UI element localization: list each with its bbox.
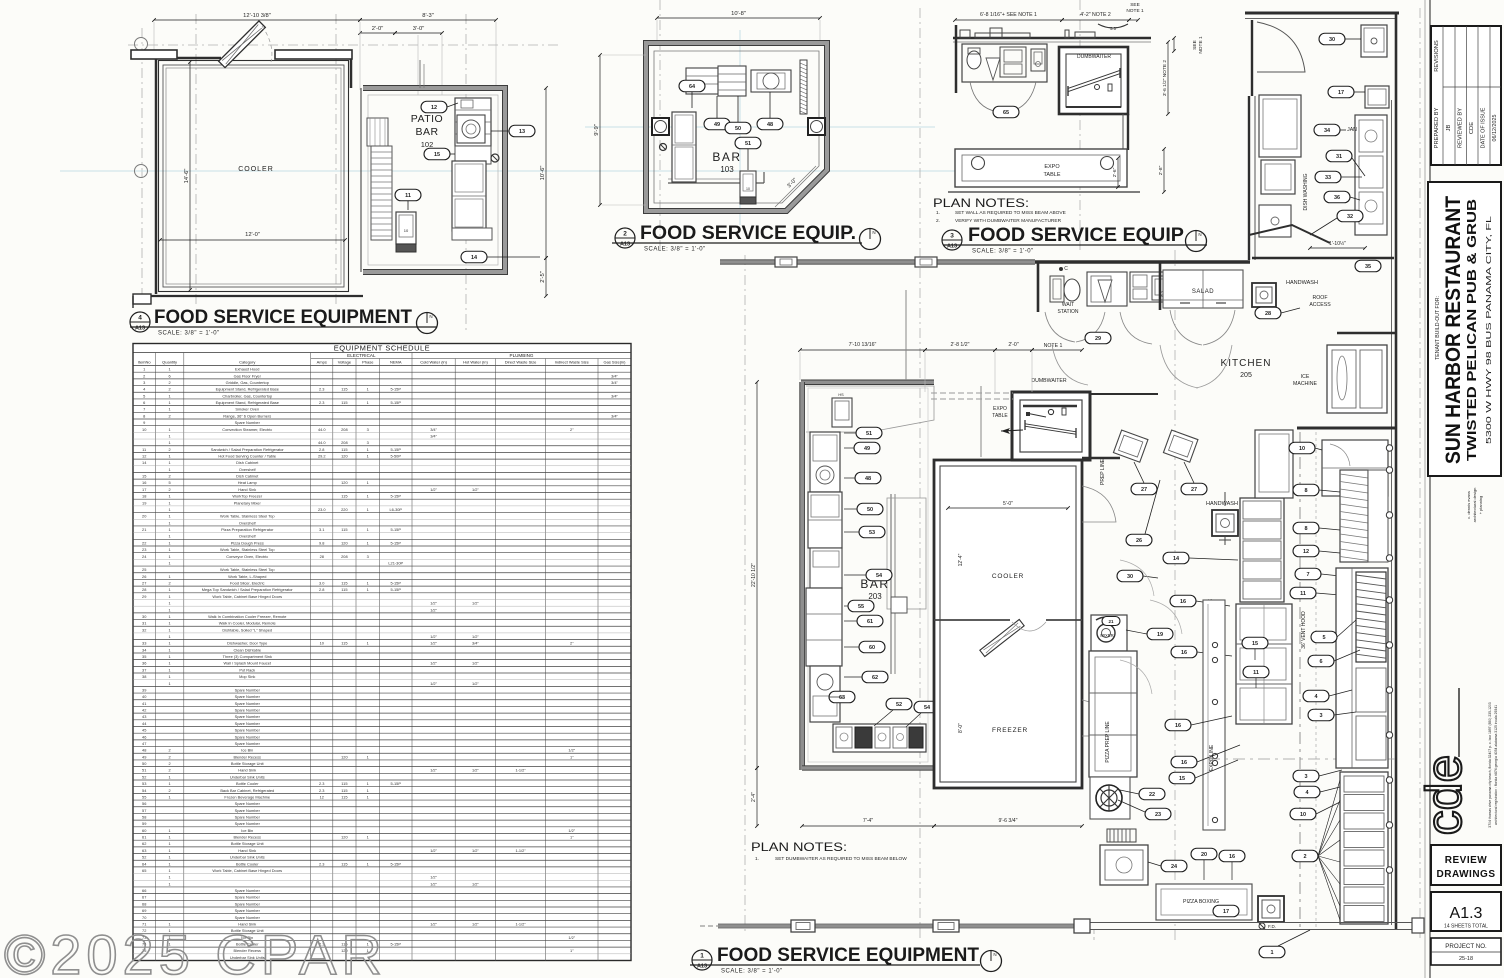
svg-text:2'-0": 2'-0" <box>372 26 384 32</box>
bubble 64 <box>679 80 705 92</box>
svg-text:1/2": 1/2" <box>430 634 437 639</box>
svg-text:4'-2" NOTE 2: 4'-2" NOTE 2 <box>1080 12 1111 18</box>
plan 2 room outer gray wall with chamfer <box>646 43 827 211</box>
svg-text:16: 16 <box>1181 650 1187 656</box>
svg-text:1: 1 <box>367 480 369 485</box>
svg-text:1: 1 <box>367 507 369 512</box>
svg-text:5-15P: 5-15P <box>391 587 402 592</box>
grid line kitchen v1 <box>744 255 746 935</box>
svg-text:29: 29 <box>142 594 146 599</box>
plan 3 title <box>942 225 1207 255</box>
svg-text:5-15P: 5-15P <box>391 540 402 545</box>
svg-text:Spare Number: Spare Number <box>235 687 261 692</box>
svg-text:3: 3 <box>143 380 145 385</box>
svg-text:1/2": 1/2" <box>430 607 437 612</box>
svg-text:3/4": 3/4" <box>611 393 618 398</box>
svg-text:17: 17 <box>1223 909 1229 915</box>
svg-text:WorkTop Freezer: WorkTop Freezer <box>232 494 262 499</box>
bubble 11 <box>395 189 421 201</box>
svg-text:1: 1 <box>367 494 369 499</box>
svg-text:VERIFY WITH DUMBWAITER MANUFAC: VERIFY WITH DUMBWAITER MANUFACTURER <box>955 218 1062 224</box>
svg-text:Dishwasher, Door Type: Dishwasher, Door Type <box>227 641 267 646</box>
svg-text:Hot Water (in): Hot Water (in) <box>463 359 488 364</box>
plan 3 dims 2ft-6 2ft-8 <box>1117 158 1119 187</box>
svg-text:SALAD: SALAD <box>1192 289 1214 295</box>
bubble 36 <box>1324 191 1350 203</box>
svg-text:63: 63 <box>142 848 146 853</box>
svg-text:2: 2 <box>169 748 171 753</box>
svg-text:EXPO: EXPO <box>1044 164 1060 170</box>
svg-text:1: 1 <box>169 527 171 532</box>
svg-text:5-15P: 5-15P <box>391 387 402 392</box>
svg-text:STATION: STATION <box>1058 309 1079 315</box>
svg-text:2": 2" <box>570 427 574 432</box>
svg-text:1: 1 <box>169 587 171 592</box>
plan 2 left dim 9ft-9in <box>599 55 601 205</box>
cooler vertical dim 14ft-6in <box>189 62 191 290</box>
svg-text:8: 8 <box>143 413 145 418</box>
svg-text:10'-8": 10'-8" <box>731 11 746 17</box>
patio bar back counter equipment <box>455 98 491 146</box>
svg-text:1/2": 1/2" <box>430 641 437 646</box>
svg-text:102: 102 <box>421 140 434 149</box>
svg-text:Mop Sink: Mop Sink <box>239 674 255 679</box>
svg-text:2'-8": 2'-8" <box>1158 165 1164 175</box>
bubble 62 bar <box>862 671 888 683</box>
svg-text:1.: 1. <box>755 856 759 862</box>
svg-text:Wall / Splash Mount Faucet: Wall / Splash Mount Faucet <box>224 661 272 666</box>
svg-text:REVISIONS: REVISIONS <box>1434 40 1440 72</box>
right hatched equip 1 <box>1340 470 1368 562</box>
svg-text:36: 36 <box>1334 195 1340 201</box>
kitchen top dims <box>800 349 925 351</box>
svg-text:38: 38 <box>142 674 146 679</box>
svg-text:1: 1 <box>169 848 171 853</box>
svg-text:55: 55 <box>142 794 146 799</box>
svg-text:L21-30P: L21-30P <box>388 560 403 565</box>
plan 3 bottom walls <box>948 191 1140 193</box>
svg-text:56: 56 <box>142 801 146 806</box>
plan 2 bottom equipment unit <box>740 171 756 197</box>
svg-text:30: 30 <box>1329 37 1335 43</box>
svg-text:6: 6 <box>143 400 145 405</box>
svg-text:CDE: CDE <box>1469 122 1475 134</box>
wait station equipment boxes <box>1087 272 1127 306</box>
svg-text:1-1/2": 1-1/2" <box>515 848 526 853</box>
svg-text:10'-6": 10'-6" <box>540 166 546 181</box>
svg-text:9'-9": 9'-9" <box>594 124 600 136</box>
svg-text:3704 thomas drive panama cit: 3704 thomas drive panama city beach, flo… <box>1488 702 1492 827</box>
wall junction box 2 <box>915 257 937 267</box>
bubble 34 jan <box>1314 124 1340 136</box>
svg-text:1: 1 <box>169 654 171 659</box>
svg-text:5'-0": 5'-0" <box>1003 501 1013 507</box>
bubble 51 <box>735 137 761 149</box>
cooler dim 5-0 <box>948 507 1068 509</box>
svg-text:2.8: 2.8 <box>319 587 324 592</box>
svg-text:architectural registration : f: architectural registration : florida #87… <box>1494 705 1498 825</box>
bubble 15 r <box>1242 637 1268 649</box>
svg-text:22: 22 <box>1149 792 1155 798</box>
svg-text:8: 8 <box>1304 526 1307 532</box>
svg-text:Direct Waste Size: Direct Waste Size <box>505 359 537 364</box>
svg-text:Underbar Sink Units: Underbar Sink Units <box>230 855 265 860</box>
svg-text:3: 3 <box>367 427 369 432</box>
svg-text:Pizza Dough Press: Pizza Dough Press <box>231 540 264 545</box>
svg-text:54: 54 <box>876 573 883 579</box>
bar left equipment column <box>810 432 840 492</box>
svg-text:Hot Food Serving Counter / Tab: Hot Food Serving Counter / Table <box>218 453 276 458</box>
cooler room outer wall <box>156 58 351 294</box>
svg-text:3: 3 <box>950 233 954 240</box>
svg-text:3'-6 1/2" NOTE 2: 3'-6 1/2" NOTE 2 <box>1162 60 1168 97</box>
title block main separator <box>1429 0 1431 978</box>
bubble 33 <box>1315 171 1341 183</box>
svg-text:29.2: 29.2 <box>318 453 326 458</box>
svg-text:Spare Number: Spare Number <box>235 888 261 893</box>
plan 3 arc 5.5 label <box>1098 24 1128 28</box>
wall connector box bottom 2 <box>933 920 959 932</box>
svg-text:16: 16 <box>1180 599 1186 605</box>
patio bar equip T1 unit bottom <box>396 212 416 244</box>
svg-text:31: 31 <box>142 621 146 626</box>
svg-text:14'-6": 14'-6" <box>184 169 190 184</box>
svg-text:2: 2 <box>169 413 171 418</box>
wall junction box 1 <box>775 257 797 267</box>
svg-text:HS: HS <box>838 393 844 397</box>
bubble 52 bar <box>886 698 912 710</box>
bubble 1 bottom <box>1259 946 1285 958</box>
svg-text:43: 43 <box>142 714 146 719</box>
svg-text:1: 1 <box>169 367 171 372</box>
svg-text:120: 120 <box>341 453 348 458</box>
table column lines <box>154 353 156 961</box>
svg-text:115: 115 <box>341 781 347 786</box>
kitchen mid wall stub <box>1297 427 1396 430</box>
svg-text:27: 27 <box>1191 487 1197 493</box>
svg-text:120: 120 <box>341 480 348 485</box>
svg-text:EXPO: EXPO <box>993 406 1007 412</box>
svg-text:SUN HARBOR RESTAURANT: SUN HARBOR RESTAURANT <box>1442 196 1465 464</box>
svg-text:Heat Lamp: Heat Lamp <box>238 480 257 485</box>
grid row centerline cyan <box>60 170 980 172</box>
fd sink bottom <box>1258 896 1284 922</box>
svg-text:60: 60 <box>869 645 875 651</box>
svg-text:2: 2 <box>169 447 171 452</box>
svg-text:2: 2 <box>169 754 171 759</box>
svg-text:1: 1 <box>367 754 369 759</box>
svg-text:115: 115 <box>341 794 347 799</box>
plan 3 dumbwaiter door bottom <box>1066 106 1121 108</box>
svg-text:1: 1 <box>169 855 171 860</box>
svg-text:10: 10 <box>746 187 750 191</box>
svg-text:3/4": 3/4" <box>430 433 437 438</box>
plan 3 dumbwaiter box <box>1059 47 1128 114</box>
plan 3 right wall of dw <box>1127 114 1129 150</box>
dish room prep sink mid <box>1365 86 1389 108</box>
svg-text:19: 19 <box>1157 632 1163 638</box>
svg-text:62: 62 <box>872 675 878 681</box>
svg-text:1: 1 <box>169 794 171 799</box>
svg-text:Spare Number: Spare Number <box>235 808 261 813</box>
svg-text:51: 51 <box>866 431 872 437</box>
svg-text:PATIO: PATIO <box>411 113 443 125</box>
svg-text:15: 15 <box>434 152 440 158</box>
plan 3 right dim 3ft-6 note 2 <box>1167 42 1169 114</box>
svg-text:Ice Bin: Ice Bin <box>241 828 253 833</box>
bubble 27 b <box>1181 483 1207 495</box>
svg-text:5-15P: 5-15P <box>391 942 402 947</box>
svg-text:SET WALL AS REQUIRED TO MISS B: SET WALL AS REQUIRED TO MISS BEAM ABOVE <box>955 210 1066 216</box>
svg-text:3: 3 <box>1319 713 1322 719</box>
svg-text:Convection Steamer, Electric: Convection Steamer, Electric <box>222 427 272 432</box>
svg-text:1/2": 1/2" <box>472 487 479 492</box>
svg-text:1: 1 <box>169 627 171 632</box>
svg-text:Overshelf: Overshelf <box>239 520 257 525</box>
svg-text:2": 2" <box>570 641 574 646</box>
svg-text:ELECTRICAL: ELECTRICAL <box>347 353 376 358</box>
bubble 60 bar <box>859 641 885 653</box>
bar sink run bottom <box>833 724 926 752</box>
grid line bar h-cyan plan2 <box>585 126 935 128</box>
svg-text:20: 20 <box>1201 852 1207 858</box>
bubble 63 bar <box>829 691 855 703</box>
svg-text:FREEZER: FREEZER <box>992 727 1028 734</box>
salad door arcs <box>1170 310 1202 345</box>
svg-text:1-1/2": 1-1/2" <box>515 768 526 773</box>
svg-text:1": 1" <box>570 835 574 840</box>
svg-text:59: 59 <box>142 821 146 826</box>
cooler door swing arc <box>262 26 272 62</box>
svg-text:18: 18 <box>142 494 146 499</box>
svg-text:2: 2 <box>169 487 171 492</box>
svg-text:51: 51 <box>142 768 146 773</box>
svg-text:42: 42 <box>142 708 146 713</box>
patio bar lower counter <box>455 146 491 164</box>
svg-text:5: 5 <box>1322 635 1325 641</box>
svg-text:1: 1 <box>169 661 171 666</box>
svg-text:1: 1 <box>169 534 171 539</box>
svg-text:EXPO LINE: EXPO LINE <box>1209 744 1215 771</box>
right hatched equip 2 <box>1356 572 1386 662</box>
svg-text:Bottle Storage Unit: Bottle Storage Unit <box>231 841 265 846</box>
svg-text:11: 11 <box>1300 591 1306 597</box>
svg-text:ICE: ICE <box>1301 374 1310 380</box>
kitchen left dim 22-10 <box>756 382 758 768</box>
dumbwaiter loading arrow <box>1001 430 1023 431</box>
svg-text:62: 62 <box>142 841 146 846</box>
svg-text:Pot Rack: Pot Rack <box>239 667 255 672</box>
svg-text:1: 1 <box>169 774 171 779</box>
svg-text:5: 5 <box>143 393 145 398</box>
svg-text:1: 1 <box>169 781 171 786</box>
svg-text:JB: JB <box>1446 124 1452 131</box>
svg-text:63: 63 <box>839 695 845 701</box>
svg-text:DATE OF ISSUE: DATE OF ISSUE <box>1481 107 1487 148</box>
svg-text:1: 1 <box>367 781 369 786</box>
right equip cells <box>1356 668 1386 712</box>
bubble 14 <box>461 251 487 263</box>
review drawings box <box>1431 845 1501 885</box>
svg-text:1: 1 <box>169 601 171 606</box>
svg-text:3/4": 3/4" <box>611 373 618 378</box>
svg-text:1: 1 <box>1270 950 1273 956</box>
bubble 16 d <box>1171 756 1197 768</box>
svg-text:PLAN NOTES:: PLAN NOTES: <box>933 196 1029 210</box>
svg-text:Spare Number: Spare Number <box>235 714 261 719</box>
svg-text:14: 14 <box>471 255 478 261</box>
patio bar hatched unit bottom <box>396 244 416 252</box>
svg-text:1: 1 <box>367 641 369 646</box>
svg-text:2'-4": 2'-4" <box>751 792 757 802</box>
svg-text:Mega Top Sandwich / Salad Prep: Mega Top Sandwich / Salad Preparation Re… <box>202 587 294 592</box>
bar top small sink <box>832 398 852 427</box>
svg-text:Dishtable, Soiled "L" Shaped: Dishtable, Soiled "L" Shaped <box>222 627 272 632</box>
plan 2 title <box>612 223 881 253</box>
expo pass counter <box>1203 600 1225 830</box>
svg-text:1/2": 1/2" <box>568 748 575 753</box>
shelf stack <box>1240 498 1284 602</box>
cooler left wall jamb top <box>131 50 177 59</box>
wait station walls <box>1035 260 1250 263</box>
svg-text:Blender Recess: Blender Recess <box>234 754 262 759</box>
svg-text:Walk In Cooler, Modular, Remot: Walk In Cooler, Modular, Remote <box>219 621 276 626</box>
svg-text:Work Table, Cabinet Base Hinge: Work Table, Cabinet Base Hinged Doors <box>212 594 282 599</box>
svg-text:47: 47 <box>142 741 146 746</box>
bubble 53 bar <box>859 526 885 538</box>
svg-text:EQUIPMENT SCHEDULE: EQUIPMENT SCHEDULE <box>334 343 430 352</box>
svg-text:12'-4": 12'-4" <box>958 553 964 566</box>
fryer bank <box>1340 772 1388 924</box>
plan 2 left column symbol <box>652 118 669 135</box>
svg-text:1: 1 <box>367 400 369 405</box>
bubble 79 <box>1147 628 1173 640</box>
svg-text:19: 19 <box>142 500 146 505</box>
plan 2 small fd circle <box>660 144 667 151</box>
dish machine boxes left <box>1259 95 1301 157</box>
svg-text:9: 9 <box>143 420 145 425</box>
svg-text:1: 1 <box>169 835 171 840</box>
horizontal dashdot mid-right <box>1208 758 1398 760</box>
svg-text:Spare Number: Spare Number <box>235 701 261 706</box>
grid line kitchen v4 <box>1419 8 1421 940</box>
svg-text:1/2": 1/2" <box>472 921 479 926</box>
svg-text:Walk In Combination Cooler Fre: Walk In Combination Cooler Freezer, Remo… <box>208 614 286 619</box>
svg-text:69: 69 <box>142 908 146 913</box>
bubble 16 e <box>1219 850 1245 862</box>
bubble 20 <box>1191 848 1217 860</box>
svg-text:3/4": 3/4" <box>472 641 479 646</box>
bubble 15 c <box>1169 772 1195 784</box>
svg-text:17: 17 <box>1338 90 1344 96</box>
svg-text:PLUMBING: PLUMBING <box>510 353 534 358</box>
svg-text:1/2": 1/2" <box>430 848 437 853</box>
svg-text:N: N <box>872 230 875 235</box>
svg-text:22'-10 1/2": 22'-10 1/2" <box>751 563 757 587</box>
svg-text:25: 25 <box>142 567 146 572</box>
plan4 bottom left wall tick <box>132 296 134 308</box>
svg-text:11: 11 <box>1253 670 1259 676</box>
bubble 24 <box>1161 860 1187 872</box>
svg-text:1: 1 <box>169 828 171 833</box>
svg-text:8'-3": 8'-3" <box>422 13 434 19</box>
svg-text:Work Table, L-Shaped: Work Table, L-Shaped <box>228 574 266 579</box>
svg-text:45: 45 <box>142 728 146 733</box>
bar mid column equipment <box>806 588 842 666</box>
svg-text:SET DUMBWAITER AS REQUIRED TO: SET DUMBWAITER AS REQUIRED TO MISS BEAM … <box>775 856 907 862</box>
bottom long exterior wall <box>718 924 1080 928</box>
svg-text:3: 3 <box>367 440 369 445</box>
svg-text:Work Table, Stainless Steel To: Work Table, Stainless Steel Top <box>220 567 275 572</box>
svg-text:1: 1 <box>169 674 171 679</box>
svg-text:Spare Number: Spare Number <box>235 420 261 425</box>
svg-text:Spare Number: Spare Number <box>235 908 261 913</box>
svg-text:1: 1 <box>169 868 171 873</box>
bubbles right column a <box>1293 484 1319 496</box>
hatched unit below dough press <box>1107 829 1136 842</box>
svg-text:48: 48 <box>865 476 871 482</box>
plan 3 toilet funnel shape <box>986 58 1000 80</box>
svg-text:1: 1 <box>169 641 171 646</box>
bubble 31 <box>1326 150 1352 162</box>
svg-text:1/2": 1/2" <box>472 768 479 773</box>
bar right counter <box>890 494 892 674</box>
svg-text:27: 27 <box>1141 487 1147 493</box>
svg-text:35: 35 <box>142 654 146 659</box>
wall connector box bottom 1 <box>700 925 718 927</box>
svg-text:©2025 CPAR: ©2025 CPAR <box>4 923 387 978</box>
salad cabinets <box>1163 270 1243 308</box>
svg-text:50: 50 <box>735 126 741 132</box>
svg-text:48: 48 <box>767 122 773 128</box>
svg-text:Spare Number: Spare Number <box>235 708 261 713</box>
bubble 26 <box>1126 534 1152 546</box>
svg-text:53: 53 <box>869 530 875 536</box>
svg-text:26: 26 <box>1136 538 1142 544</box>
svg-text:2: 2 <box>169 768 171 773</box>
svg-text:MACHINE: MACHINE <box>1293 381 1317 387</box>
svg-text:N: N <box>1198 232 1201 237</box>
plan 3 vanity boxes <box>1000 47 1026 77</box>
grid line plan3 v7 <box>1079 0 1081 250</box>
svg-text:1: 1 <box>169 500 171 505</box>
svg-text:2.3: 2.3 <box>319 861 324 866</box>
svg-text:NOTE 1: NOTE 1 <box>1044 343 1063 349</box>
svg-text:Clean Dishtable: Clean Dishtable <box>234 647 261 652</box>
svg-text:208: 208 <box>341 554 348 559</box>
svg-text:Quantity: Quantity <box>162 359 177 364</box>
svg-text:FOOD SERVICE EQUIP.: FOOD SERVICE EQUIP. <box>640 223 856 244</box>
svg-text:8: 8 <box>1304 488 1307 494</box>
bubble 28 <box>1255 307 1281 319</box>
svg-text:2.: 2. <box>936 218 940 224</box>
mixer <box>1091 615 1127 651</box>
bubble 54 bar b <box>914 701 940 713</box>
kitchen dish room left wall <box>1251 20 1253 96</box>
svg-text:5-15P: 5-15P <box>391 581 402 586</box>
kitchen wall stub right of dumbwaiter <box>1090 393 1158 395</box>
plan 4 dim extension lines <box>153 22 155 52</box>
plan 3 expo table <box>955 149 1127 187</box>
patio bar front counter L <box>452 161 486 231</box>
svg-text:61: 61 <box>867 619 873 625</box>
bubble 2 with fanout <box>1292 850 1318 862</box>
svg-text:Hand Sink: Hand Sink <box>238 487 256 492</box>
plan 3 left wall <box>955 25 958 93</box>
svg-text:103: 103 <box>720 165 734 174</box>
dish room top-right sink <box>1361 25 1387 57</box>
svg-text:54: 54 <box>924 705 931 711</box>
